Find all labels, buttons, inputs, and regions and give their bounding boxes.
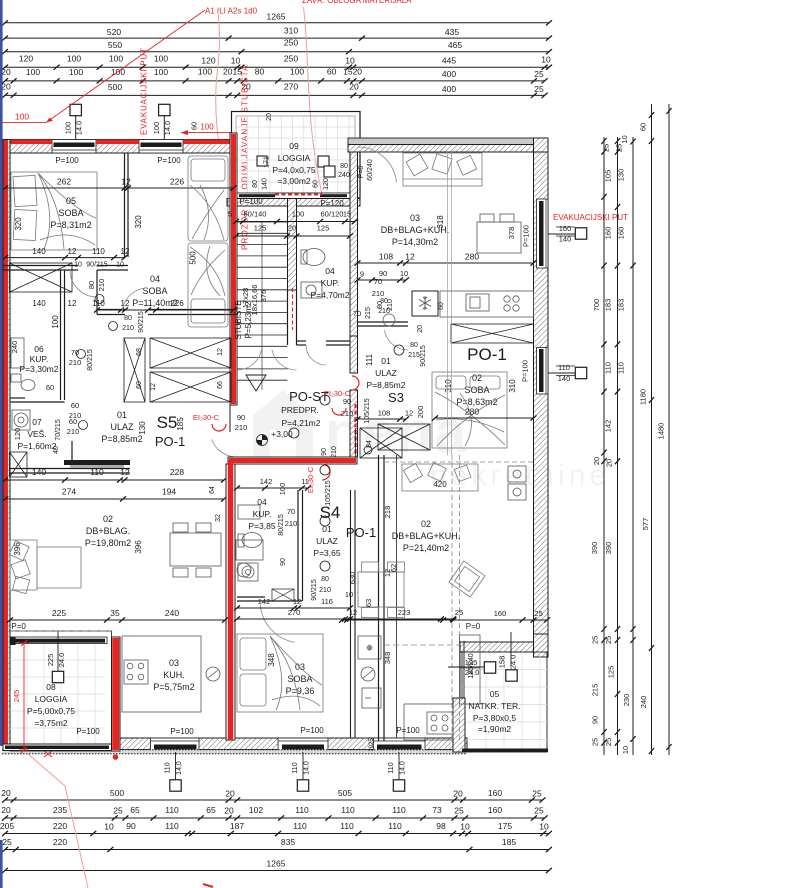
loggia 08 window band: [10, 637, 107, 644]
svg-text:10: 10: [539, 822, 549, 832]
svg-text:80/215: 80/215: [87, 349, 94, 371]
kitchen block S4 top: [236, 540, 263, 560]
svg-text:P=19,80m2: P=19,80m2: [85, 538, 131, 548]
svg-text:400: 400: [442, 84, 456, 94]
table S4: [358, 562, 404, 618]
svg-text:100: 100: [292, 210, 305, 219]
svg-text:02: 02: [472, 373, 482, 383]
red text EI2 30-C S4: [306, 466, 315, 493]
dimension line top 520/310/435: [2, 36, 552, 41]
svg-text:65: 65: [130, 805, 140, 815]
svg-text:02: 02: [103, 514, 113, 524]
svg-text:11: 11: [301, 477, 309, 486]
room label ves07: [18, 417, 57, 451]
bed soba03 S4: [237, 634, 323, 712]
svg-text:P=100: P=100: [522, 225, 531, 247]
svg-text:210: 210: [69, 411, 82, 420]
svg-text:110: 110: [604, 362, 613, 374]
svg-text:2015: 2015: [223, 67, 242, 77]
svg-text:120: 120: [323, 178, 330, 190]
svg-text:90: 90: [591, 716, 600, 724]
svg-text:P=5,75m2: P=5,75m2: [153, 682, 194, 692]
svg-text:223: 223: [398, 608, 411, 617]
room label natkr ter: [468, 689, 520, 734]
svg-text:210: 210: [319, 587, 331, 594]
svg-text:420: 420: [433, 480, 447, 489]
dim row S5 mid2: [2, 496, 227, 501]
svg-text:108: 108: [379, 252, 393, 262]
svg-text:140: 140: [32, 299, 46, 308]
svg-text:225: 225: [46, 654, 55, 667]
red tick bottom left: [44, 751, 52, 757]
svg-text:25: 25: [604, 738, 613, 746]
svg-text:25: 25: [534, 806, 544, 816]
svg-text:100: 100: [51, 315, 60, 329]
svg-text:60: 60: [190, 122, 199, 130]
stair direction arrow: [246, 375, 266, 391]
svg-text:80: 80: [255, 67, 265, 77]
svg-text:60: 60: [327, 67, 337, 77]
svg-text:80/215: 80/215: [278, 514, 285, 536]
svg-text:04: 04: [257, 497, 267, 507]
svg-text:EI₂30-C: EI₂30-C: [193, 413, 220, 422]
dim row under soba05: [2, 255, 128, 260]
svg-text:110: 110: [295, 805, 309, 815]
svg-text:10: 10: [345, 56, 355, 66]
svg-text:25: 25: [534, 69, 544, 79]
svg-text:210: 210: [235, 423, 248, 432]
svg-text:25: 25: [534, 609, 542, 618]
svg-text:90: 90: [280, 558, 287, 566]
svg-text:P=100: P=100: [55, 156, 79, 165]
svg-text:14.0: 14.0: [163, 121, 172, 136]
svg-text:110: 110: [165, 821, 179, 831]
svg-text:215: 215: [591, 684, 600, 697]
svg-text:32: 32: [215, 514, 222, 522]
svg-text:10: 10: [541, 55, 551, 65]
svg-text:160: 160: [604, 227, 613, 240]
svg-text:S3: S3: [388, 390, 404, 405]
svg-text:10: 10: [400, 269, 408, 278]
svg-text:100: 100: [67, 54, 81, 64]
svg-text:20: 20: [225, 789, 235, 799]
svg-text:235: 235: [53, 805, 67, 815]
svg-text:205: 205: [0, 821, 14, 831]
svg-text:228: 228: [170, 467, 184, 477]
svg-text:90: 90: [343, 397, 351, 406]
svg-text:210: 210: [372, 289, 385, 298]
svg-text:120: 120: [19, 54, 33, 64]
svg-text:S5: S5: [157, 413, 178, 432]
loggia 09 window band: [236, 193, 355, 199]
top wall left building: [3, 140, 236, 154]
svg-text:10: 10: [620, 135, 629, 143]
red wall S5-S4: [226, 464, 235, 740]
svg-text:108: 108: [378, 409, 391, 418]
s4 kitchen east fixtures: [358, 636, 381, 708]
svg-text:PO-1: PO-1: [467, 345, 507, 364]
dim row terrace: [339, 617, 550, 622]
svg-text:06: 06: [34, 344, 44, 354]
svg-text:05: 05: [66, 196, 76, 206]
room label dbblag03 S3: [381, 213, 450, 247]
svg-text:100: 100: [69, 67, 83, 77]
svg-text:P=0: P=0: [11, 622, 26, 631]
dimension line top 120/100 chain: [2, 65, 552, 70]
dim 280 soba02: [432, 415, 537, 420]
bottom window 2: [278, 738, 328, 752]
svg-text:12: 12: [349, 608, 357, 617]
svg-text:05: 05: [490, 689, 500, 699]
svg-text:12: 12: [120, 467, 130, 477]
svg-text:LOGGIA: LOGGIA: [35, 694, 68, 704]
svg-text:20: 20: [592, 457, 601, 465]
room label soba03 S4: [286, 662, 315, 696]
svg-text:274: 274: [62, 487, 76, 497]
loggia 08 bottom wall: [3, 744, 112, 751]
svg-text:P=21,40m2: P=21,40m2: [403, 543, 449, 553]
svg-text:20: 20: [453, 789, 463, 799]
svg-text:245: 245: [12, 690, 21, 703]
svg-text:P=100: P=100: [170, 727, 194, 736]
svg-text:110: 110: [617, 362, 626, 374]
red wall band po-st bottom: [228, 457, 357, 464]
svg-text:60/120: 60/120: [321, 210, 344, 219]
dimension line top 20/500 chain: [2, 93, 548, 98]
svg-text:171: 171: [264, 156, 271, 168]
red wavy line 1: [216, 9, 220, 140]
bottom window symbol 2: [302, 752, 304, 780]
kitchen dash line: [384, 644, 459, 646]
watermark logo: [253, 390, 610, 492]
window symbol top-left2 100/140: [163, 116, 165, 140]
svg-text:577: 577: [641, 518, 650, 531]
kup04 wall right: [350, 152, 358, 336]
bottom window 1: [151, 738, 200, 752]
washer S3: [383, 314, 395, 326]
svg-text:12: 12: [405, 409, 413, 418]
svg-text:EVAKUACIJSKI PUT: EVAKUACIJSKI PUT: [140, 47, 149, 135]
couch right apt 02: [402, 463, 478, 491]
room label ulaz S4: [313, 524, 340, 558]
svg-text:ULAZ: ULAZ: [375, 368, 397, 378]
svg-text:12: 12: [217, 348, 224, 356]
dim row S3: [355, 260, 537, 265]
wardrobe soba05 hall: [10, 263, 73, 292]
svg-text:=3,75m2: =3,75m2: [34, 718, 68, 728]
svg-text:12: 12: [121, 299, 130, 308]
svg-text:1480: 1480: [657, 423, 666, 440]
dining table S5: [170, 523, 221, 577]
svg-text:ULAZ: ULAZ: [316, 536, 338, 546]
svg-text:P=14,30m2: P=14,30m2: [392, 237, 438, 247]
red dashed kup04: [292, 288, 294, 330]
door soba04 arc: [122, 288, 148, 314]
svg-text:ZAVR. OBLOGA MATERIJALA: ZAVR. OBLOGA MATERIJALA: [302, 0, 412, 5]
svg-text:=3,00m2: =3,00m2: [277, 176, 311, 186]
svg-text:DB+BLAG+KUH.: DB+BLAG+KUH.: [392, 531, 461, 541]
room label dbblag02 S5: [85, 514, 131, 548]
dining table S3: [477, 214, 521, 253]
dimension bottom line B: [2, 815, 548, 820]
svg-text:200: 200: [416, 406, 425, 419]
svg-text:P=0: P=0: [466, 622, 481, 631]
svg-text:270: 270: [284, 82, 298, 92]
svg-text:318: 318: [436, 215, 445, 229]
tall cabinet right apt: [460, 635, 481, 704]
svg-text:24.0: 24.0: [57, 653, 66, 668]
svg-text:P=0: P=0: [358, 166, 365, 179]
dim row soba05: [2, 185, 237, 190]
svg-text:KUP.: KUP.: [321, 278, 340, 288]
door arcs S3 mid: [384, 330, 408, 350]
svg-text:12: 12: [405, 252, 415, 262]
svg-text:262: 262: [57, 177, 71, 187]
svg-text:210: 210: [69, 358, 82, 367]
ves07 wardrobe: [10, 452, 28, 477]
svg-text:1265: 1265: [267, 859, 286, 869]
couch S5: [9, 540, 81, 594]
svg-text:100: 100: [154, 67, 168, 77]
svg-text:100: 100: [200, 123, 214, 132]
svg-text:60: 60: [136, 381, 143, 389]
left exterior wall: [3, 140, 10, 752]
svg-text:KUP.: KUP.: [30, 354, 49, 364]
svg-text:348: 348: [383, 652, 392, 665]
svg-text:SOBA: SOBA: [142, 286, 167, 296]
room label kuh03: [153, 658, 194, 692]
svg-text:12: 12: [121, 177, 131, 187]
svg-text:100: 100: [64, 122, 73, 135]
svg-text:183: 183: [604, 299, 613, 312]
svg-text:20: 20: [288, 224, 296, 233]
svg-text:226: 226: [170, 177, 184, 187]
svg-text:09: 09: [289, 141, 299, 151]
svg-text:110: 110: [292, 762, 299, 773]
svg-text:25: 25: [455, 608, 463, 617]
svg-text:SOBA: SOBA: [464, 385, 489, 395]
fan kuh03: [206, 667, 220, 681]
stair right wall: [288, 199, 297, 291]
svg-text:210: 210: [285, 519, 298, 528]
red arrow 100 loggia: [181, 132, 232, 134]
svg-text:5: 5: [228, 210, 232, 219]
svg-text:60: 60: [639, 123, 648, 131]
svg-text:500: 500: [108, 82, 122, 92]
red door S3 entry: [352, 376, 359, 390]
right wall window 2: [537, 348, 549, 395]
svg-text:62: 62: [389, 564, 398, 572]
wall soba05 south: [3, 266, 128, 271]
dimension vertical right C: [630, 137, 635, 755]
dim row S4 top: [234, 485, 311, 490]
svg-text:PREDPR.: PREDPR.: [281, 405, 319, 415]
svg-text:226: 226: [170, 299, 184, 308]
svg-text:DB+BLAG.: DB+BLAG.: [86, 526, 130, 536]
room label dbblag02 right: [392, 519, 461, 553]
svg-text:80: 80: [87, 281, 96, 289]
svg-text:160: 160: [617, 227, 626, 240]
svg-text:P=5,00x0,75: P=5,00x0,75: [27, 706, 75, 716]
svg-text:250: 250: [284, 54, 298, 64]
svg-text:110: 110: [90, 467, 104, 477]
svg-text:550: 550: [108, 40, 122, 50]
svg-text:390: 390: [604, 542, 613, 555]
svg-text:396: 396: [134, 540, 143, 554]
couch S3: [403, 153, 482, 186]
red mark bottom edge: [203, 884, 213, 887]
svg-text:01: 01: [381, 356, 391, 366]
ves07 walls: [10, 468, 130, 470]
ves07 washer: [12, 410, 30, 430]
svg-text:60/240: 60/240: [367, 159, 374, 181]
svg-text:10: 10: [74, 262, 82, 269]
svg-text:25: 25: [113, 806, 123, 816]
svg-text:215: 215: [365, 307, 372, 319]
svg-text:105: 105: [604, 170, 613, 183]
svg-text:142: 142: [604, 420, 613, 433]
dim rows S4 bottom: [234, 605, 353, 610]
svg-text:1520: 1520: [343, 67, 362, 77]
svg-text:142: 142: [258, 597, 271, 606]
red wavy line 2: [304, 7, 323, 194]
svg-text:194: 194: [162, 487, 176, 497]
svg-text:520: 520: [107, 27, 121, 37]
svg-text:70: 70: [71, 348, 79, 357]
svg-text:835: 835: [281, 837, 295, 847]
svg-text:445: 445: [442, 56, 456, 66]
svg-text:130: 130: [617, 169, 626, 182]
svg-text:280: 280: [465, 252, 479, 262]
svg-text:630: 630: [348, 572, 357, 585]
right building corner: [534, 138, 549, 160]
svg-text:120: 120: [201, 56, 215, 66]
svg-text:12: 12: [68, 247, 77, 256]
wall between soba05 and soba04: [124, 153, 126, 257]
svg-text:90/215: 90/215: [138, 311, 145, 333]
room label soba02 S3: [456, 373, 497, 407]
svg-text:1025: 1025: [369, 738, 375, 752]
dim row 225/35/240: [7, 617, 228, 622]
dimension line top 550/250/465: [2, 49, 552, 54]
bottom window symbol 1: [175, 752, 177, 780]
dimension vertical right D: [649, 104, 654, 755]
svg-text:140: 140: [32, 247, 46, 256]
svg-text:348: 348: [267, 653, 276, 667]
svg-text:320: 320: [14, 217, 23, 231]
svg-text:9: 9: [360, 270, 364, 279]
svg-text:PO-1: PO-1: [346, 525, 376, 540]
svg-text:03: 03: [410, 213, 420, 223]
svg-text:120: 120: [13, 428, 22, 441]
kitchen boxes right wall: [508, 466, 526, 500]
svg-text:80: 80: [340, 163, 348, 170]
red leader diagonal: [46, 10, 205, 123]
window top 2: [139, 140, 183, 154]
svg-text:14,0: 14,0: [304, 761, 311, 775]
dimension vertical right B: [615, 137, 620, 755]
wc S3 walls: [358, 321, 409, 323]
svg-text:SOBA: SOBA: [58, 208, 83, 218]
svg-text:70: 70: [374, 277, 382, 286]
svg-text:STUBIŠTE: STUBIŠTE: [234, 300, 243, 339]
room label kup04: [311, 266, 350, 300]
svg-text:70/215: 70/215: [55, 419, 62, 441]
svg-text:185: 185: [176, 417, 185, 431]
svg-text:65: 65: [206, 805, 216, 815]
svg-text:KUH.: KUH.: [163, 670, 185, 680]
red dashed loggia: [275, 194, 322, 196]
svg-text:90: 90: [321, 448, 328, 456]
svg-text:60: 60: [438, 302, 445, 310]
svg-text:60: 60: [71, 401, 79, 410]
svg-text:10: 10: [621, 746, 630, 754]
svg-text:07: 07: [32, 417, 42, 427]
svg-text:24.0: 24.0: [465, 668, 480, 677]
wall S4 right: [378, 455, 380, 741]
storage near stair: [378, 424, 430, 450]
kitchen S3 fridge: [412, 291, 438, 316]
terrace bottom edge: [462, 749, 548, 753]
dimension vertical right E: [666, 104, 671, 755]
svg-text:P=4,21m2: P=4,21m2: [282, 418, 321, 428]
svg-text:70: 70: [353, 309, 361, 318]
kitchen S3 counter: [440, 291, 534, 317]
svg-text:100: 100: [290, 67, 304, 77]
svg-text:130: 130: [138, 421, 147, 435]
stair labels: [241, 285, 268, 316]
svg-text:111: 111: [365, 353, 374, 366]
kup04 S4 fixtures: [238, 505, 262, 581]
room label kup04 S4: [248, 497, 275, 531]
svg-text:25: 25: [604, 636, 613, 644]
svg-text:240: 240: [10, 341, 19, 354]
svg-text:80: 80: [252, 180, 259, 188]
dimension bottom line C: [2, 831, 552, 836]
svg-text:08: 08: [46, 682, 56, 692]
natkr ter window sqs: [448, 666, 485, 668]
svg-text:185: 185: [502, 837, 516, 847]
svg-text:P=3,30m2: P=3,30m2: [20, 364, 59, 374]
svg-text:02: 02: [421, 519, 431, 529]
dimension vertical right A: [601, 137, 606, 755]
svg-text:125: 125: [607, 666, 616, 679]
svg-text:A1 ILI A2s 1d0: A1 ILI A2s 1d0: [205, 7, 258, 16]
svg-text:P=8,85m2: P=8,85m2: [367, 380, 406, 390]
svg-text:P=8,85m2: P=8,85m2: [101, 434, 142, 444]
svg-text:125: 125: [317, 224, 330, 233]
room label ulaz01 S3: [367, 356, 406, 390]
svg-text:10: 10: [231, 56, 241, 66]
svg-text:465: 465: [448, 40, 462, 50]
svg-text:P=3,85: P=3,85: [248, 521, 275, 531]
door S4 circles: [320, 465, 330, 475]
circle po-st: [320, 395, 330, 405]
svg-text:01: 01: [117, 410, 127, 420]
svg-text:110: 110: [388, 821, 402, 831]
svg-text:110: 110: [92, 247, 105, 256]
p100 rotated right windows: [521, 225, 531, 382]
svg-text:218: 218: [383, 506, 392, 519]
svg-text:400: 400: [442, 69, 456, 79]
svg-text:60: 60: [313, 180, 320, 188]
svg-text:100: 100: [154, 54, 168, 64]
kitchen right apt bottom: [404, 704, 453, 740]
loggia 08: [10, 631, 112, 751]
svg-text:60: 60: [46, 383, 54, 392]
dim texts ulaz S3 bottom: [355, 416, 410, 421]
svg-text:110: 110: [340, 821, 354, 831]
